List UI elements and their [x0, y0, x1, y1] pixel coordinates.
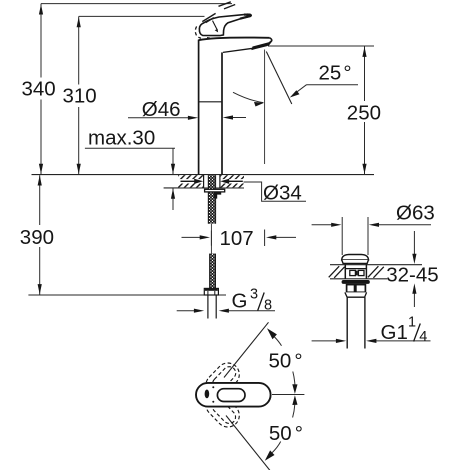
clamp bracket piece: [214, 192, 221, 199]
svg-text:25°: 25°: [319, 62, 352, 85]
top view: center line right: [272, 394, 304, 396]
deck bottom line: [164, 187, 244, 189]
drain body windows: [350, 270, 356, 275]
svg-text:Ø34: Ø34: [263, 182, 302, 205]
deck hole white gap: [204, 175, 219, 187]
50deg lower arc arrow at horizontal: [292, 395, 297, 405]
hose tail pipe G3/8: [208, 295, 216, 319]
deck hatch white mid band: [178, 179, 244, 183]
hose centerline between rod and hose: [210, 224, 212, 254]
lever tip thick stroke: [240, 15, 251, 19]
dimension line 340: [40, 4, 42, 175]
G3/8 left arrow: [177, 310, 196, 312]
25 deg arc with arrow: [233, 92, 263, 102]
dimension line 250: [364, 46, 366, 175]
50deg upper arc arrow at line: [267, 328, 277, 339]
basin hatch marks: [329, 266, 384, 278]
raised lever dashed back arc: [195, 26, 201, 38]
svg-text:8: 8: [264, 298, 272, 314]
spout beak outline: [268, 38, 272, 46]
supply hose braided upper part: [210, 254, 216, 289]
dimension 32-45 lower: [413, 292, 415, 308]
extension line spout outlet (250): [268, 45, 374, 47]
arrowheads 340: [39, 4, 43, 174]
deck cross-section hatch right: [220, 175, 244, 187]
G1 1/4 left arrow pointing right at pipe: [312, 340, 338, 342]
deck top line: [32, 174, 375, 176]
lever inner crease with small arrow: [213, 21, 217, 30]
arrow max.30 up to deck bottom: [172, 188, 174, 210]
svg-text:Ø46: Ø46: [142, 98, 181, 121]
deck hole edges: [204, 175, 220, 188]
svg-text:340: 340: [22, 77, 56, 100]
top view: dashed handle rotated down 50deg: [201, 388, 244, 431]
svg-text:310: 310: [63, 85, 97, 108]
dimension line 390: [39, 175, 41, 295]
hose end nut: [204, 288, 218, 295]
drain cap dome: [342, 255, 369, 260]
lever body (solid): [199, 14, 250, 35]
dimension 107 left arrow: [182, 236, 202, 238]
50deg lower arc arrow at line: [265, 450, 275, 460]
mounting flange washer below deck: [205, 189, 225, 192]
svg-text:G: G: [232, 290, 248, 313]
drain body through slab: [345, 265, 366, 279]
dashed tick under lever body: [207, 37, 213, 40]
50deg upper arc arrow at horizontal: [292, 384, 297, 394]
faucet column right edge: [221, 52, 223, 174]
G3/8 right arrow merging underline: [227, 310, 275, 312]
dimension 32-45 upper: [413, 231, 415, 256]
spout top edge: [199, 37, 270, 40]
top view: dashed handle rotated up 50deg: [201, 358, 244, 401]
drain taper: [345, 292, 367, 297]
svg-text:107: 107: [220, 227, 254, 250]
50deg lower direction line: [226, 416, 270, 470]
svg-text:250: 250: [347, 102, 381, 125]
top view: lever recess capsule: [217, 389, 245, 402]
drain Oe63 dimension arrows: [312, 224, 333, 226]
top view: dash remnants dots: [212, 386, 214, 388]
svg-text:390: 390: [20, 226, 54, 249]
spout tip extension line down (107): [264, 50, 266, 165]
top view: pivot blob: [205, 390, 210, 399]
25 deg direction line: [266, 52, 292, 105]
spout aerator wedge (black): [252, 41, 271, 49]
25 deg leader with arrow: [307, 84, 359, 86]
deck cross-section hatch left: [178, 175, 204, 187]
arrowheads 310: [77, 17, 81, 174]
svg-text:50°: 50°: [269, 422, 303, 445]
50deg upper direction line: [224, 322, 269, 377]
Oe46 right arrow pointing left: [230, 117, 246, 119]
deck clamp arrow left (black): [181, 180, 197, 182]
drain neck: [345, 264, 366, 265]
deck clamp arrow right (black): [228, 180, 243, 182]
svg-text:G1: G1: [381, 321, 408, 344]
drain flange nut below slab (black bar): [342, 280, 370, 284]
svg-text:32-45: 32-45: [386, 263, 438, 286]
Oe34 label leader step: [244, 182, 307, 201]
Oe46 label underline-arrow pointing right: [128, 117, 190, 119]
drain cap skirt: [342, 260, 369, 264]
threaded rod (braided texture): [208, 175, 215, 224]
dimension 107 tick at centerline: [210, 231, 212, 246]
extension line top of raised lever (340): [41, 3, 232, 5]
basin slab bottom line: [330, 278, 387, 280]
extension line top of lever (310): [79, 15, 205, 17]
label max.30 underline: [85, 147, 175, 149]
drain Oe63 extension lines: [342, 217, 368, 255]
raised lever dashed strokes: [202, 2, 235, 23]
top view: handle body stadium: [196, 383, 271, 407]
faucet body seam line: [199, 101, 222, 103]
spout underside line: [223, 48, 253, 52]
leader max.30 down to deck: [172, 148, 174, 174]
basin slab top line: [330, 264, 422, 266]
drain ribbed section: [347, 285, 366, 293]
svg-text:3: 3: [250, 287, 258, 303]
G1 1/4 right arrow pointing left at pipe: [375, 340, 431, 342]
svg-text:4: 4: [419, 329, 427, 345]
svg-text:50°: 50°: [269, 350, 303, 373]
svg-text:Ø63: Ø63: [396, 202, 435, 225]
svg-text:1: 1: [408, 315, 416, 331]
svg-text:max.30: max.30: [88, 127, 155, 150]
hose end reference line (390): [28, 294, 226, 296]
dimension 107 right arrow and tick: [264, 230, 266, 247]
drain tail pipe G1 1/4: [347, 297, 365, 348]
dimension line 310: [78, 16, 80, 174]
faucet column left edge: [198, 40, 200, 175]
